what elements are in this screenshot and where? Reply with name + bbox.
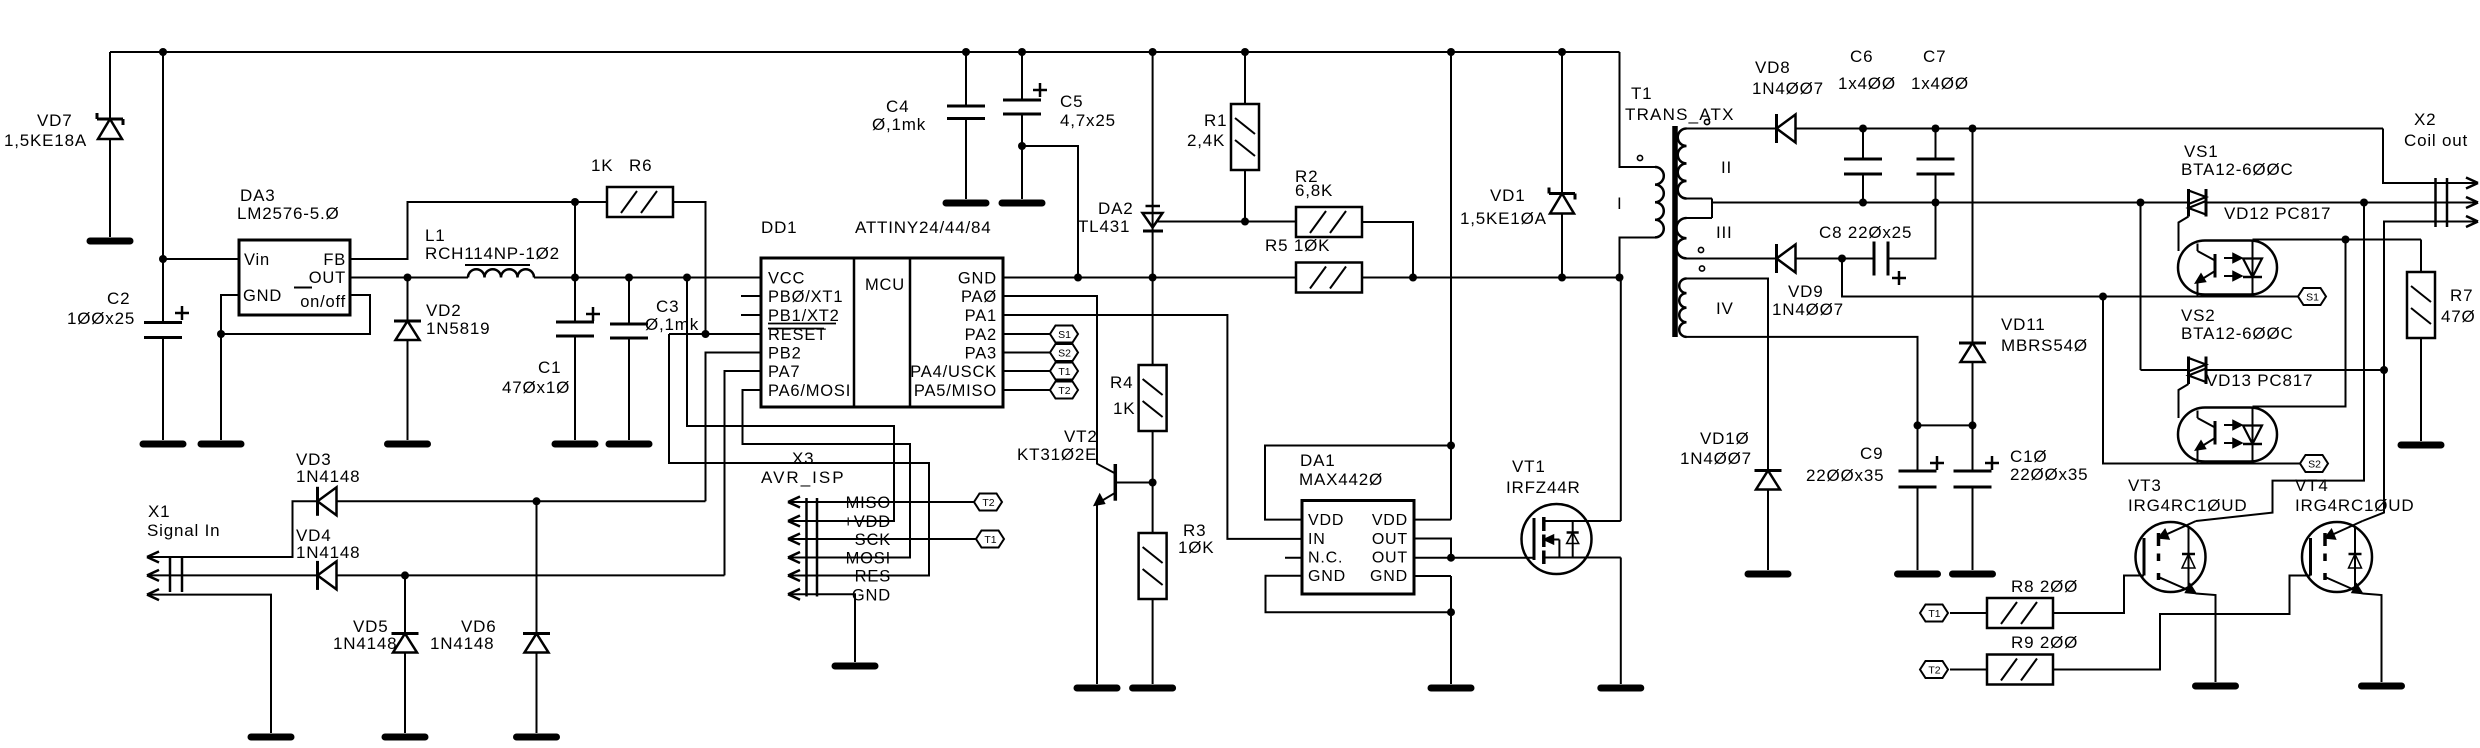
svg-text:PA2: PA2: [965, 326, 997, 344]
wire RESET net: [669, 333, 761, 335]
wire X1.3 to ground: [182, 595, 271, 733]
junction rail2: [1932, 199, 1940, 207]
wire VD4 to PA7 net: [337, 574, 725, 576]
resistor R2 6,8K: [1296, 207, 1362, 237]
wire GND net to TL431 anode: [1078, 277, 1296, 279]
svg-text:OUT: OUT: [1372, 550, 1408, 567]
svg-text:GND: GND: [852, 586, 891, 604]
junction rail: [1932, 125, 1940, 133]
resistor R1 2,4K: [1231, 104, 1259, 170]
pin X3 MISO: [788, 501, 817, 503]
svg-text:47Ø: 47Ø: [2441, 307, 2476, 326]
resistor R9 200: [1987, 655, 2053, 685]
wire gate supply to S1: [1842, 259, 2298, 297]
svg-text:III: III: [1716, 223, 1733, 242]
junction rail: [1969, 125, 1977, 133]
wire C1 branch: [574, 278, 576, 323]
wire VS2 MT1 drop: [2140, 203, 2142, 371]
resistor R5 10K: [1296, 263, 1362, 293]
wire R4 bottom to VT2 collector: [1152, 431, 1154, 483]
wire VD5 branch: [404, 575, 406, 633]
svg-text:ATTINY24/44/84: ATTINY24/44/84: [855, 218, 992, 237]
wire snubber rail (II/III tap): [1712, 202, 2189, 204]
svg-text:C1: C1: [538, 358, 561, 377]
wire X1.2 to VD4: [182, 574, 318, 576]
junction 5V rail: [404, 274, 412, 282]
winding I (primary): [1655, 167, 1664, 237]
wire C8 to rail2: [1888, 203, 1936, 259]
flag T1 (PA4): [1050, 363, 1078, 380]
svg-text:GND: GND: [1370, 568, 1408, 585]
wire RESET to X3 RES: [669, 334, 929, 576]
junction rail2: [2137, 199, 2145, 207]
flag S1: [2298, 288, 2326, 305]
ground C4: [946, 200, 986, 207]
wire DA3 OUT 5V rail: [351, 277, 468, 279]
pin X1.2: [147, 574, 182, 576]
ground R7: [2401, 442, 2441, 449]
wire VT1 drain to primary: [1620, 278, 1622, 522]
diode VD7 1,5KE18A (TVS): [97, 118, 123, 121]
junction VT4 collector: [2380, 366, 2388, 374]
junction VT2 collector / R3: [1149, 479, 1157, 487]
junction 5V rail: [571, 274, 579, 282]
svg-text:X2: X2: [2414, 110, 2436, 129]
junction C10: [1969, 421, 1977, 429]
diode VD6 1N4148: [523, 632, 550, 635]
ground VD5: [385, 734, 425, 741]
wire R2 right: [1362, 222, 1413, 278]
svg-text:S2: S2: [1058, 348, 1071, 360]
svg-text:VDD: VDD: [1308, 512, 1344, 529]
svg-text:VT1: VT1: [1512, 457, 1546, 476]
wire VCC/+VDD to X3: [687, 278, 894, 522]
junction RESET pullup: [702, 330, 710, 338]
ground DA1: [1431, 685, 1471, 692]
winding III: [1676, 218, 1686, 258]
wire R3 bottom: [1152, 599, 1154, 684]
pin X1.3: [147, 594, 182, 596]
connector X1 Signal In: [169, 556, 172, 592]
ground C2: [143, 441, 183, 448]
pin X1.1: [147, 556, 182, 558]
pin PB0/XT1 stub: [741, 295, 761, 297]
connector X2 Coil out: [2434, 178, 2437, 227]
junction R1 bottom: [1241, 218, 1249, 226]
capacitor C10 2200x35: [1972, 425, 1974, 471]
ground VT2: [1077, 685, 1117, 692]
node Vin tap: [159, 255, 167, 263]
svg-text:MOSI: MOSI: [846, 550, 891, 568]
svg-text:PA1: PA1: [965, 307, 997, 325]
winding II: [1678, 129, 1687, 199]
svg-text:PA6/MOSI: PA6/MOSI: [768, 382, 851, 400]
svg-text:MBRS54Ø: MBRS54Ø: [2001, 336, 2088, 355]
wire X3 SCK to flag T1: [817, 538, 976, 540]
svg-text:VD7: VD7: [37, 111, 72, 130]
wire R9 to VT4 gate: [2053, 576, 2311, 670]
svg-text:I: I: [1617, 194, 1623, 213]
ground C9: [1898, 571, 1938, 578]
junction at C5: [1018, 142, 1026, 150]
wire PA4/USCK to flag T1: [1003, 370, 1050, 372]
diode VD4 1N4148: [316, 561, 319, 590]
junction: [1241, 48, 1249, 56]
wire X3 GND to ground: [817, 594, 855, 662]
ground VD10: [1748, 571, 1788, 578]
wire VD2 branch: [407, 278, 409, 322]
svg-text:VD9: VD9: [1788, 282, 1823, 301]
svg-text:C1Ø: C1Ø: [2010, 447, 2047, 466]
svg-text:OUT: OUT: [309, 269, 346, 287]
core T1: [1672, 126, 1678, 337]
capacitor C1 470x10: [556, 321, 594, 324]
svg-text:C8 22Øx25: C8 22Øx25: [1819, 223, 1912, 242]
svg-text:PBØ/XT1: PBØ/XT1: [768, 288, 843, 306]
svg-text:C2: C2: [107, 289, 130, 308]
svg-text:TL431: TL431: [1078, 217, 1130, 236]
svg-text:BTA12-6ØØC: BTA12-6ØØC: [2181, 324, 2294, 343]
wire Vin: [163, 258, 239, 260]
svg-text:MCU: MCU: [865, 276, 905, 294]
wire VD13 anode line: [2253, 240, 2346, 407]
diode VD5 1N4148: [392, 632, 419, 635]
svg-text:1N4148: 1N4148: [430, 634, 494, 653]
wire input to Vin and C2: [162, 52, 164, 323]
svg-text:PA7: PA7: [768, 363, 800, 381]
wire VD10 to ground: [1767, 490, 1769, 571]
junction 5V rail: [625, 274, 633, 282]
wire rectified rail to X2.1: [2383, 129, 2436, 184]
junction: [159, 48, 167, 56]
svg-text:R7: R7: [2450, 286, 2473, 305]
junction C8 / gate supply: [1838, 255, 1846, 263]
junction OUT net: [1447, 554, 1455, 562]
junction: [1447, 48, 1455, 56]
junction GND loop: [217, 330, 225, 338]
resistor R8 200: [1987, 598, 2053, 628]
svg-text:VD13 PC817: VD13 PC817: [2206, 371, 2313, 390]
wire PB2 to signal input: [706, 353, 762, 502]
junction 5V rail: [683, 274, 691, 282]
svg-text:R9 2ØØ: R9 2ØØ: [2011, 633, 2078, 652]
svg-text:RES: RES: [855, 568, 891, 586]
svg-text:IRG4RC1ØUD: IRG4RC1ØUD: [2128, 496, 2247, 515]
pin X2.1: [2436, 182, 2479, 184]
junction VD13 anode tie: [2342, 236, 2350, 244]
svg-text:47Øx1Ø: 47Øx1Ø: [502, 378, 570, 397]
svg-text:+VDD: +VDD: [843, 513, 891, 531]
svg-text:1ØØx25: 1ØØx25: [67, 309, 135, 328]
wire DA1 OUT2 to VT1 gate: [1414, 557, 1534, 559]
svg-text:BTA12-6ØØC: BTA12-6ØØC: [2181, 160, 2294, 179]
ground VT3: [2196, 683, 2236, 690]
winding IV: [1679, 279, 1686, 337]
wire GND to ground: [220, 334, 222, 440]
junction GND net: [1074, 274, 1082, 282]
ground C10: [1953, 571, 1993, 578]
diode VD2 1N5819: [394, 320, 421, 323]
svg-text:1,5KE1ØA: 1,5KE1ØA: [1460, 209, 1547, 228]
svg-text:AVR_ISP: AVR_ISP: [761, 468, 846, 487]
junction VD5 clamp: [401, 571, 409, 579]
junction rail: [1859, 125, 1867, 133]
svg-text:C3: C3: [656, 297, 679, 316]
wire R3 top: [1152, 483, 1154, 534]
svg-text:IRG4RC1ØUD: IRG4RC1ØUD: [2295, 496, 2414, 515]
svg-text:1K: 1K: [591, 156, 613, 175]
stub N.C.: [1285, 557, 1302, 559]
diode VD9 1N4007: [1775, 244, 1778, 273]
svg-text:S1: S1: [2306, 292, 2319, 304]
wire +12 to DA1 VDD: [1450, 52, 1452, 520]
wire primary bottom: [1620, 238, 1656, 278]
svg-text:IRFZ44R: IRFZ44R: [1506, 478, 1581, 497]
junction: [1018, 48, 1026, 56]
wire VT4 emitter to ground: [2363, 594, 2382, 683]
flag T2 (R9): [1920, 661, 1948, 678]
svg-text:Ø,1mk: Ø,1mk: [872, 115, 926, 134]
capacitor C2 100x25: [144, 321, 182, 324]
wire DA1 GND right to ground: [1414, 575, 1451, 577]
svg-text:PA4/USCK: PA4/USCK: [910, 363, 997, 381]
svg-text:2,4K: 2,4K: [1187, 131, 1225, 150]
wire VD7 branch: [109, 52, 111, 119]
phase dot winding IV: [1699, 266, 1704, 271]
wire VD6 branch: [536, 501, 538, 633]
wire +12V top rail: [110, 51, 1620, 53]
svg-text:DD1: DD1: [761, 218, 797, 237]
svg-text:1,5KE18A: 1,5KE18A: [4, 131, 87, 150]
IC DA1 MAX4420 box: [1302, 501, 1414, 595]
phase dot winding II: [1704, 119, 1709, 124]
wire VD10 from winding IV: [1687, 279, 1769, 471]
wire drain sense rail: [1362, 277, 1620, 279]
wire X1.1 to VD3: [182, 501, 318, 557]
svg-text:22ØØx35: 22ØØx35: [2010, 465, 2088, 484]
wire R6 sense drop: [574, 202, 576, 278]
capacitor C4 0,1mk: [947, 105, 985, 108]
flag T2 (X3 MISO): [974, 494, 1002, 511]
junction VT3 collector: [2360, 199, 2368, 207]
wire R1 bottom: [1244, 170, 1246, 222]
wire R7 top: [2420, 240, 2422, 273]
svg-text:GND: GND: [1308, 568, 1346, 585]
wire winding III bottom to VD9: [1687, 258, 1777, 260]
wire VT3 collector to X2.2 net: [2196, 203, 2364, 522]
wire TL431 cathode from rail: [1152, 52, 1154, 278]
wire VD1 branch: [1561, 52, 1563, 194]
svg-text:6,8K: 6,8K: [1295, 181, 1333, 200]
diode VD11 MBRS540: [1959, 342, 1986, 345]
capacitor C8 220x25: [1873, 242, 1876, 276]
svg-text:T1: T1: [984, 534, 996, 546]
junction R6 left / C1 sense: [571, 198, 579, 206]
capacitor C7 1x400: [1935, 129, 1937, 160]
svg-text:KT31Ø2E: KT31Ø2E: [1017, 445, 1097, 464]
svg-text:VD11: VD11: [2001, 315, 2045, 334]
svg-text:LM2576-5.Ø: LM2576-5.Ø: [237, 204, 340, 223]
ground C3: [609, 441, 649, 448]
capacitor C9 2200x35: [1917, 425, 1919, 471]
wire R7 bottom: [2420, 338, 2422, 441]
svg-text:GND: GND: [958, 270, 997, 288]
ground VT4: [2362, 683, 2402, 690]
svg-text:C9: C9: [1860, 444, 1883, 463]
wire primary top: [1620, 52, 1656, 167]
svg-text:S2: S2: [2308, 459, 2321, 471]
svg-text:on/off: on/off: [300, 293, 346, 311]
svg-text:C4: C4: [886, 97, 909, 116]
junction S2 drop: [2099, 293, 2107, 301]
wire VT4 collector to X2.3 net: [2363, 370, 2385, 521]
wire VS2 MT1: [2141, 369, 2189, 371]
wire T2 to R9: [1950, 669, 1987, 671]
diode VD10 1N4007: [1755, 469, 1782, 472]
wire PA5/MISO to flag T2: [1003, 389, 1050, 391]
wire DA1 VDD-left loop: [1265, 446, 1451, 520]
svg-text:1N4ØØ7: 1N4ØØ7: [1752, 79, 1824, 98]
svg-text:VS1: VS1: [2184, 142, 2219, 161]
diode VD8 1N4007: [1775, 114, 1778, 143]
ground VD2: [388, 441, 428, 448]
shunt reference DA2 TL431: [1146, 205, 1161, 208]
pin X2.2: [2436, 202, 2479, 204]
inductor L1 RCH114NP-102: [468, 269, 534, 277]
svg-text:OUT: OUT: [1372, 531, 1408, 548]
svg-text:1N4ØØ7: 1N4ØØ7: [1680, 449, 1752, 468]
ground VD6: [517, 734, 557, 741]
transistor VT3 IRG4RC10UD (IGBT): [2136, 522, 2206, 592]
wire winding IV bottom to C9: [1687, 337, 1918, 426]
wire II/III junction: [1687, 198, 1713, 200]
svg-text:VD2: VD2: [426, 301, 461, 320]
svg-text:GND: GND: [243, 287, 282, 305]
wire DA1 OUT1 jog: [1414, 539, 1451, 558]
flag S2 (PA3): [1050, 344, 1078, 361]
wire X2.3 to VS2: [2384, 222, 2436, 371]
svg-text:VDD: VDD: [1372, 512, 1408, 529]
pin X3 RES: [788, 575, 817, 577]
triac VS2 BTA12-600C: [2187, 357, 2190, 385]
svg-text:1x4ØØ: 1x4ØØ: [1838, 74, 1896, 93]
flag T2 (PA5): [1050, 382, 1078, 399]
svg-text:IV: IV: [1716, 299, 1734, 318]
wire winding II top to VD8: [1687, 128, 1777, 130]
capacitor C6 1x400: [1862, 129, 1864, 160]
pin X3 +VDD: [788, 520, 817, 522]
svg-text:T2: T2: [982, 497, 994, 509]
svg-text:VD1Ø: VD1Ø: [1700, 429, 1750, 448]
wire X3 MISO to flag T2: [817, 501, 974, 503]
wire VD9 output: [1796, 258, 1875, 260]
svg-text:4,7x25: 4,7x25: [1060, 111, 1116, 130]
wire VS1 gate: [2179, 217, 2189, 252]
svg-text:C7: C7: [1923, 47, 1946, 66]
svg-text:R1: R1: [1204, 111, 1227, 130]
connector X3 AVR_ISP: [805, 498, 808, 597]
triac VS1 BTA12-600C: [2187, 189, 2190, 217]
transistor VT4 IRG4RC10UD (IGBT): [2302, 522, 2372, 592]
wire R1 top: [1244, 52, 1246, 104]
wire R6 to RESET pullup: [673, 202, 706, 334]
wire VD12 anode line to R7: [2253, 239, 2422, 241]
svg-text:PA3: PA3: [965, 345, 997, 363]
wire PA3 to flag S2: [1003, 352, 1050, 354]
svg-text:1K: 1K: [1113, 399, 1135, 418]
junction GND net DA1: [1447, 608, 1455, 616]
flag S1 (PA2): [1050, 326, 1078, 343]
svg-text:S1: S1: [1058, 329, 1071, 341]
capacitor C3 0,1mk: [610, 323, 648, 326]
svg-text:Vin: Vin: [244, 251, 270, 269]
svg-text:C5: C5: [1060, 92, 1083, 111]
svg-text:VCC: VCC: [768, 270, 805, 288]
svg-text:X1: X1: [148, 502, 170, 521]
svg-text:Signal In: Signal In: [147, 521, 220, 540]
svg-text:T1: T1: [1928, 608, 1940, 620]
junction VDD net: [1447, 442, 1455, 450]
wire VS2 MT2: [2206, 369, 2384, 371]
wire DA1 GND-left loop: [1266, 576, 1452, 612]
wire GND pin to C5: [1003, 146, 1078, 278]
IC DD1 ATTINY24/44/84 box: [761, 258, 1003, 407]
wire snubber rail to X2.2: [2206, 202, 2436, 204]
svg-text:VS2: VS2: [2181, 306, 2216, 325]
wire PA2 to flag S1: [1003, 333, 1050, 335]
svg-text:R6: R6: [629, 156, 652, 175]
svg-text:PAØ: PAØ: [961, 288, 997, 306]
junction: [1149, 48, 1157, 56]
ground VD7: [90, 238, 130, 245]
svg-text:X3: X3: [792, 449, 814, 468]
svg-text:R8 2ØØ: R8 2ØØ: [2011, 577, 2078, 596]
phase dot winding I: [1637, 155, 1642, 160]
transistor VT2 KT3102E (NPN): [1114, 464, 1118, 501]
svg-text:DA1: DA1: [1300, 451, 1335, 470]
wire DA1 VDD right: [1414, 519, 1451, 521]
wire PA6/MOSI to X3 MOSI: [743, 390, 911, 558]
wire FB feedback to R6: [351, 202, 607, 259]
svg-text:VD1: VD1: [1490, 186, 1525, 205]
wire T1 to R8: [1950, 612, 1987, 614]
junction: [1558, 48, 1566, 56]
svg-text:1ØK: 1ØK: [1178, 538, 1214, 557]
svg-text:IN: IN: [1308, 531, 1326, 548]
pin X3 MOSI: [788, 557, 817, 559]
wire VS2 gate: [2179, 384, 2189, 418]
ground C5: [1002, 200, 1042, 207]
svg-text:1N4148: 1N4148: [333, 634, 397, 653]
junction C9: [1914, 421, 1922, 429]
svg-text:DA2: DA2: [1098, 199, 1133, 218]
IC DA3 LM2576-5.0 box: [239, 240, 350, 315]
wire R8 to VT3 gate: [2053, 576, 2144, 614]
ground DA3: [201, 441, 241, 448]
optocoupler VD12 PC817: [2178, 241, 2277, 295]
junction rail2: [1859, 199, 1867, 207]
wire PA0 to VT2 base: [1003, 296, 1115, 474]
resistor R6 1K: [607, 187, 673, 217]
svg-text:1N4148: 1N4148: [296, 543, 360, 562]
svg-text:II: II: [1721, 158, 1732, 177]
svg-text:MAX442Ø: MAX442Ø: [1299, 470, 1383, 489]
junction: [962, 48, 970, 56]
svg-text:VD12 PC817: VD12 PC817: [2224, 204, 2331, 223]
wire VT2 emitter to ground: [1096, 504, 1098, 685]
flag T1 (X3 SCK): [976, 531, 1004, 548]
svg-text:R4: R4: [1110, 373, 1133, 392]
